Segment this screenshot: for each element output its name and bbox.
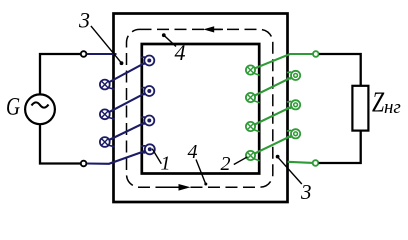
- svg-text:нг: нг: [384, 97, 401, 118]
- secondary winding cross-section X loops: [246, 65, 255, 160]
- terminal (bottom left): [81, 161, 87, 167]
- winding turn diagonal 3: [105, 121, 150, 143]
- loop tangents right: [287, 72, 292, 137]
- wire: bottom terminal to loop: [87, 149, 150, 164]
- winding turn diagonal 2: [251, 105, 296, 127]
- wire terminal to load (top): [319, 54, 361, 86]
- load impedance Z (rectangle): [352, 86, 368, 131]
- svg-text:1: 1: [161, 153, 171, 175]
- winding turn diagonal 2: [105, 91, 150, 114]
- svg-text:3: 3: [78, 8, 90, 33]
- terminal (bottom right): [313, 160, 319, 166]
- label 4 (bottom) with leader: [188, 141, 208, 186]
- secondary winding W2 (green): [251, 54, 313, 163]
- label G: [6, 92, 20, 120]
- terminal (top left): [81, 51, 87, 57]
- magnetic flux line (dashed loop): [127, 29, 273, 187]
- generator G (AC source): [25, 94, 55, 124]
- label 1 (bottom left) with leader: [152, 149, 170, 175]
- svg-text:G: G: [6, 92, 20, 120]
- label 4 (top) with leader: [162, 33, 186, 65]
- loop tangents left: [254, 73, 260, 161]
- svg-text:4: 4: [175, 40, 186, 65]
- label 3 (top left) with leader: [78, 8, 123, 66]
- winding turn diagonal 1: [105, 61, 150, 85]
- flux direction arrow top (pointing left): [203, 26, 223, 32]
- winding turn diagonal 3: [251, 134, 296, 156]
- wire load to terminal (bottom): [319, 131, 361, 163]
- primary winding dot loops (current out of page): [144, 56, 155, 155]
- wire: top loop to terminal: [251, 54, 313, 70]
- svg-text:2: 2: [221, 153, 231, 175]
- transformer core outer edge: [114, 14, 288, 203]
- terminal (top right): [313, 51, 319, 57]
- wire G bottom to terminal: [40, 124, 80, 163]
- loop tangents right: [141, 57, 146, 153]
- label 3 (bottom right) with leader: [276, 155, 312, 204]
- label 2 (bottom middle) with leader: [221, 153, 248, 175]
- winding turn diagonal 1: [251, 75, 296, 97]
- primary winding W1 (navy): [87, 54, 150, 164]
- secondary winding dot loops: [291, 71, 300, 139]
- primary winding cross-section X loops (current into page): [100, 80, 110, 147]
- label Z нг: [372, 88, 401, 118]
- wire: top terminal to core edge: [87, 53, 117, 55]
- loop tangents left: [108, 88, 114, 147]
- flux direction arrow bottom (pointing right): [156, 184, 191, 191]
- transformer core inner edge (window): [142, 44, 259, 174]
- wire G top to terminal: [40, 54, 80, 95]
- wire: core edge to bottom terminal: [288, 162, 313, 163]
